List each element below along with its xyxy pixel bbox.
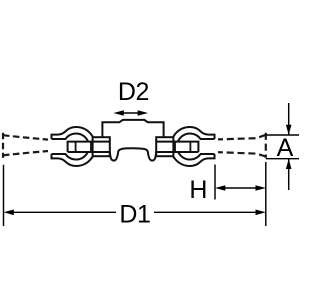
clamp right: band housing	[157, 142, 198, 152]
dimension D1	[4, 162, 266, 229]
clamp right: inner ring open to mouth	[177, 134, 215, 160]
svg-text:H: H	[189, 176, 207, 204]
svg-text:A: A	[277, 134, 294, 162]
svg-text:D1: D1	[119, 201, 150, 229]
cap box left	[93, 137, 110, 156]
dimension D2	[114, 78, 150, 116]
clamp left: band housing	[68, 142, 109, 152]
bridge underside arch and feet	[110, 148, 156, 160]
clamp left: inner ring open to mouth	[52, 134, 90, 160]
pipe right (dashed hose)	[218, 133, 266, 158]
dimension H	[189, 165, 265, 205]
clamp left: outer contour jaws + ball	[52, 127, 94, 166]
pipe left (dashed hose)	[3, 133, 48, 158]
bridge (center)	[102, 120, 163, 161]
cap box right	[156, 137, 173, 156]
bridge top plate with bump	[102, 120, 163, 137]
dimension A (right)	[266, 103, 299, 190]
clamp right: outer contour jaws + ball	[173, 127, 215, 166]
svg-text:D2: D2	[118, 78, 149, 106]
